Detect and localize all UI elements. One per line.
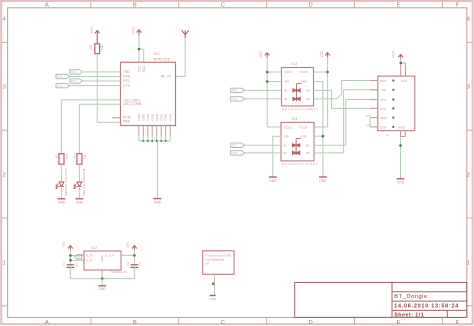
svg-text:D: D bbox=[309, 320, 313, 326]
svg-text:J1: J1 bbox=[386, 133, 389, 137]
svg-text:BTM-222: BTM-222 bbox=[154, 56, 171, 61]
svg-text:RTS: RTS bbox=[123, 79, 130, 83]
junctions GND bus bbox=[142, 140, 166, 142]
X1 pin labels bbox=[380, 79, 408, 130]
svg-text:VCC: VCC bbox=[392, 50, 396, 58]
svg-text:B: B bbox=[133, 3, 137, 9]
supply VCC arrow (IC3 B-side) bbox=[325, 53, 330, 58]
svg-text:CTS: CTS bbox=[123, 84, 130, 88]
X1 GND pin stubs bottom bbox=[401, 131, 406, 137]
IC1 pin labels bbox=[123, 70, 171, 124]
svg-text:GND: GND bbox=[58, 201, 66, 205]
LED1 bbox=[56, 182, 64, 189]
wire C1 to GND rail bbox=[69, 267, 71, 278]
svg-text:SMD-LED-TOPLED-RT: SMD-LED-TOPLED-RT bbox=[64, 167, 68, 195]
svg-text:A2: A2 bbox=[284, 97, 288, 101]
svg-text:CTS: CTS bbox=[232, 151, 238, 155]
IC4 pin labels bbox=[283, 125, 310, 155]
resistor R2 bbox=[72, 154, 87, 165]
svg-text:B: B bbox=[133, 320, 137, 326]
wire VCC to X1 bbox=[400, 57, 402, 63]
svg-text:A2: A2 bbox=[283, 151, 287, 155]
wire net LED_CONN bbox=[79, 104, 120, 153]
svg-text:IC4: IC4 bbox=[292, 117, 298, 121]
svg-text:VCC: VCC bbox=[90, 26, 94, 34]
svg-text:A1: A1 bbox=[283, 144, 287, 148]
ground (X1) bbox=[397, 179, 405, 185]
op module IC1 BTM-222 bbox=[121, 51, 176, 125]
wire LED1 to GND bbox=[60, 186, 62, 198]
svg-text:RXD: RXD bbox=[57, 75, 63, 79]
svg-text:3V3: 3V3 bbox=[126, 242, 130, 248]
wire net LED_DATA bbox=[61, 100, 120, 154]
svg-text:5V: 5V bbox=[206, 261, 210, 265]
svg-text:2: 2 bbox=[3, 173, 6, 179]
svg-text:C: C bbox=[221, 320, 225, 326]
svg-text:C: C bbox=[221, 3, 225, 9]
svg-text:GND: GND bbox=[319, 179, 327, 183]
svg-text:VCC: VCC bbox=[137, 65, 141, 72]
title block text bbox=[394, 294, 459, 319]
svg-text:VCC: VCC bbox=[401, 79, 408, 83]
svg-text:GND: GND bbox=[155, 113, 159, 121]
svg-text:B1: B1 bbox=[307, 89, 311, 93]
resistor R3 bbox=[89, 44, 104, 54]
svg-text:R3: R3 bbox=[89, 45, 93, 49]
supply VCC arrow (R3 pull-up) bbox=[95, 31, 100, 44]
capacitor C2 bbox=[126, 262, 142, 268]
svg-text:VCC: VCC bbox=[320, 50, 324, 58]
supply +5V arrow (IC2 input) bbox=[68, 246, 73, 251]
wire GND bus under IC1 bbox=[139, 136, 170, 199]
ground (IC2) bbox=[98, 286, 106, 291]
svg-text:DIR: DIR bbox=[284, 80, 289, 84]
svg-text:3: 3 bbox=[467, 85, 470, 91]
svg-text:RTS: RTS bbox=[380, 107, 386, 111]
wires UART nets to IC1 bbox=[70, 72, 121, 86]
net flag CTS (IC4) bbox=[231, 151, 245, 155]
svg-text:GND: GND bbox=[99, 287, 107, 291]
svg-text:RF_IO: RF_IO bbox=[161, 74, 171, 78]
node arrow marker bbox=[212, 282, 215, 285]
svg-text:SN74LVC2T45DCT: SN74LVC2T45DCT bbox=[282, 107, 318, 111]
svg-text:Sheet: 1/1: Sheet: 1/1 bbox=[394, 313, 424, 319]
wire RF_IO (antenna to IC1) bbox=[176, 38, 186, 76]
wire GND bottom rail bbox=[70, 278, 134, 280]
wire net RES (R3 to IC1) bbox=[97, 54, 120, 123]
svg-text:GND: GND bbox=[397, 181, 405, 185]
wire net B2 IC4 to X1 TXD bbox=[314, 90, 378, 153]
IC4 internal diodes bbox=[292, 138, 300, 155]
svg-text:GND: GND bbox=[154, 200, 162, 204]
supply VCC arrow (IC1) bbox=[137, 30, 142, 36]
svg-text:GND: GND bbox=[159, 113, 163, 121]
svg-text:14.06.2010 13:58:24: 14.06.2010 13:58:24 bbox=[394, 303, 459, 309]
junction V_OUT bbox=[133, 254, 136, 257]
note box (battery connector) bbox=[203, 251, 234, 274]
junction X1 GND bbox=[399, 144, 402, 147]
svg-text:DTR: DTR bbox=[366, 125, 371, 127]
frame column letters top bbox=[45, 3, 460, 9]
junction +5V V_IN1 bbox=[69, 254, 72, 257]
svg-text:DIR: DIR bbox=[284, 135, 289, 139]
net flag RXD (IC3) bbox=[231, 88, 245, 92]
wire LED2 to GND bbox=[78, 186, 80, 198]
IC IC4 level translator bbox=[281, 117, 314, 161]
svg-text:RES: RES bbox=[123, 120, 131, 124]
regulator IC2 bbox=[84, 246, 121, 270]
wire net B2 IC3 to X1 RXD bbox=[314, 81, 378, 99]
svg-text:B2: B2 bbox=[307, 97, 311, 101]
svg-text:IC3: IC3 bbox=[292, 62, 298, 66]
svg-text:RTS: RTS bbox=[71, 79, 77, 83]
frame row numbers left bbox=[3, 17, 7, 267]
connector X1 bbox=[378, 76, 415, 131]
svg-text:GND: GND bbox=[301, 80, 307, 84]
svg-text:TXD: TXD bbox=[380, 88, 387, 92]
svg-text:470: 470 bbox=[65, 154, 69, 159]
svg-text:GND: GND bbox=[137, 113, 141, 121]
antenna bbox=[182, 30, 189, 38]
svg-text:B2: B2 bbox=[306, 151, 310, 155]
svg-text:V_IN: V_IN bbox=[86, 254, 92, 258]
svg-text:+5V: +5V bbox=[62, 241, 66, 248]
wire R1 to LED1 bbox=[60, 164, 62, 182]
svg-text:VCC: VCC bbox=[142, 65, 146, 72]
svg-text:VCC: VCC bbox=[131, 26, 135, 34]
junction VCC X1 bbox=[399, 62, 402, 65]
svg-text:CTS: CTS bbox=[380, 98, 386, 102]
net flag RTS (IC4) bbox=[231, 143, 245, 147]
supply VCC arrow (IC3 A-side) bbox=[265, 53, 270, 58]
X1 left pin stubs bbox=[370, 81, 378, 127]
svg-text:RXD: RXD bbox=[232, 89, 238, 93]
IC3 pin labels bbox=[284, 70, 311, 101]
ground (note box) bbox=[209, 296, 217, 302]
svg-text:SN74LVC2T45DCT: SN74LVC2T45DCT bbox=[282, 162, 318, 166]
net flag RTS bbox=[70, 79, 83, 83]
svg-text:E: E bbox=[397, 3, 401, 9]
svg-text:1: 1 bbox=[3, 261, 6, 267]
IC1 GND pin names (rotated) bbox=[137, 113, 172, 121]
svg-text:LED_CONN: LED_CONN bbox=[123, 102, 142, 106]
capacitor C1 bbox=[62, 262, 79, 268]
svg-text:SMD-LED-TOPLED-BL: SMD-LED-TOPLED-BL bbox=[82, 167, 86, 195]
svg-text:A1: A1 bbox=[284, 89, 288, 93]
wire DIR IC4 to GND bbox=[273, 136, 281, 177]
svg-text:GND: GND bbox=[269, 179, 277, 183]
svg-text:V_IN: V_IN bbox=[86, 258, 92, 262]
pin stub PCM (unconnected) bbox=[112, 117, 121, 119]
net flag CTS bbox=[56, 83, 70, 87]
wire IC2 GND to rail bbox=[101, 275, 103, 279]
svg-text:DSR: DSR bbox=[380, 116, 387, 120]
svg-text:A: A bbox=[45, 3, 49, 9]
wire net B1 IC4 to X1 CTS bbox=[314, 100, 378, 146]
svg-text:1: 1 bbox=[467, 261, 470, 267]
svg-text:RTS: RTS bbox=[232, 144, 238, 148]
svg-text:VCCA: VCCA bbox=[284, 125, 292, 129]
junction VCCB IC3 bbox=[326, 71, 329, 74]
svg-text:BT_Dongle: BT_Dongle bbox=[394, 294, 428, 300]
svg-text:RXD: RXD bbox=[123, 75, 131, 79]
svg-text:RXD: RXD bbox=[380, 79, 387, 83]
svg-text:GND: GND bbox=[146, 113, 150, 121]
svg-text:C2: C2 bbox=[126, 262, 130, 266]
title block bbox=[295, 283, 467, 318]
wire note box to GND bbox=[214, 274, 216, 295]
wire VCC rail left of IC3/IC4 bbox=[267, 57, 281, 127]
IC2 pin labels bbox=[86, 254, 114, 263]
wire GND net IC3/IC4 bbox=[314, 82, 323, 178]
svg-text:F: F bbox=[456, 320, 460, 326]
net flag RXD bbox=[56, 74, 70, 78]
wire X1 GND down bbox=[400, 137, 402, 179]
svg-text:VCCB: VCCB bbox=[299, 125, 307, 129]
svg-text:R1: R1 bbox=[54, 154, 58, 158]
junction VCCA IC3 bbox=[266, 71, 269, 74]
svg-text:3: 3 bbox=[3, 85, 6, 91]
IC IC3 level translator bbox=[282, 62, 314, 106]
svg-text:GND: GND bbox=[164, 113, 168, 121]
supply 3V3 arrow (IC2 output) bbox=[132, 246, 137, 251]
wire GND rail drop bbox=[101, 279, 103, 286]
IC1 VCC pin names (rotated) bbox=[137, 65, 146, 72]
frame column letters bottom bbox=[45, 320, 460, 326]
ground (right of IC4) bbox=[319, 177, 327, 183]
svg-text:VCC: VCC bbox=[259, 50, 263, 58]
IC1 bottom GND pin stubs bbox=[139, 126, 170, 136]
ground (LED1) bbox=[58, 199, 66, 205]
wire net B1 IC3 to X1 RTS bbox=[314, 90, 378, 108]
svg-text:TXD: TXD bbox=[71, 70, 77, 74]
svg-text:10u: 10u bbox=[138, 262, 142, 267]
X1 VCC pin stubs top bbox=[401, 63, 406, 76]
ground (LED2) bbox=[76, 199, 84, 205]
wire V_OUT rail bbox=[121, 250, 134, 265]
svg-text:2: 2 bbox=[467, 173, 470, 179]
svg-text:C1: C1 bbox=[62, 262, 66, 266]
svg-text:E: E bbox=[397, 320, 401, 326]
svg-text:A: A bbox=[45, 320, 49, 326]
svg-text:TXD: TXD bbox=[232, 97, 238, 101]
junction GND IC4 bbox=[322, 135, 325, 138]
svg-text:GND: GND bbox=[141, 113, 145, 121]
IC3 internal diodes bbox=[293, 84, 301, 102]
svg-text:GND: GND bbox=[168, 113, 172, 121]
svg-text:5V: 5V bbox=[77, 255, 80, 259]
wire C2 to GND rail bbox=[133, 267, 135, 278]
net flag TXD (IC3) bbox=[231, 97, 245, 101]
svg-text:470: 470 bbox=[83, 154, 87, 159]
svg-text:VCCB: VCCB bbox=[300, 70, 308, 74]
svg-text:VCCA: VCCA bbox=[284, 70, 292, 74]
ground (IC4 DIR) bbox=[269, 177, 277, 183]
X1 pin dots bbox=[392, 79, 394, 128]
svg-text:GND: GND bbox=[398, 126, 406, 130]
svg-text:GND: GND bbox=[300, 135, 306, 139]
svg-text:DSR: DSR bbox=[366, 116, 371, 118]
wires flags to IC4 A pins bbox=[245, 145, 281, 153]
wire VCC to IC1 pins bbox=[139, 35, 144, 62]
svg-text:R2: R2 bbox=[72, 154, 76, 158]
svg-text:D: D bbox=[309, 3, 313, 9]
svg-text:IC2: IC2 bbox=[92, 246, 98, 250]
svg-text:DTR: DTR bbox=[380, 125, 387, 129]
svg-text:F: F bbox=[456, 3, 460, 9]
svg-text:GND: GND bbox=[150, 113, 154, 121]
junction +5V V_IN2 bbox=[69, 259, 72, 262]
svg-text:GND: GND bbox=[100, 255, 104, 261]
svg-text:GND: GND bbox=[209, 297, 217, 301]
svg-text:CTS: CTS bbox=[57, 84, 63, 88]
junction DIR IC3 bbox=[266, 80, 269, 83]
svg-text:B1: B1 bbox=[306, 144, 310, 148]
ground (under IC1) bbox=[154, 199, 162, 205]
wire +5V rail bbox=[70, 250, 84, 265]
svg-text:TXD: TXD bbox=[123, 70, 130, 74]
svg-text:GND: GND bbox=[76, 201, 84, 205]
junction VCC IC1 bbox=[138, 48, 141, 51]
svg-text:10u: 10u bbox=[75, 262, 79, 267]
resistor R1 bbox=[54, 154, 69, 165]
svg-text:V_OUT: V_OUT bbox=[105, 254, 115, 258]
net flag 5V bbox=[75, 255, 82, 259]
wires flags to IC3 A pins bbox=[245, 90, 282, 99]
wire R2 to LED2 bbox=[78, 164, 80, 182]
net flag TXD bbox=[70, 70, 83, 74]
X1 tiny net labels bbox=[366, 116, 371, 127]
svg-text:MICREL-05: MICREL-05 bbox=[111, 270, 127, 274]
wire VCC rail right of IC3/IC4 bbox=[314, 57, 328, 127]
wire DSR-DTR loopback bbox=[369, 118, 371, 127]
supply VCC arrow (X1) bbox=[398, 55, 403, 59]
IC2 GND pin stub bbox=[101, 270, 103, 275]
frame row numbers right bbox=[467, 17, 471, 267]
junction GND rail bbox=[101, 277, 104, 280]
svg-text:10k: 10k bbox=[100, 44, 104, 50]
LED2 bbox=[74, 182, 82, 189]
